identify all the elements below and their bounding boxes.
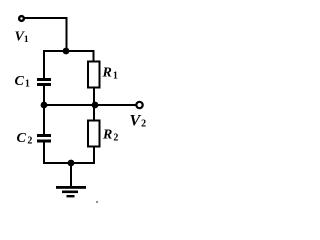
speck artifact xyxy=(96,201,98,203)
node junction upper xyxy=(63,48,70,55)
node junction left-mid xyxy=(41,102,48,109)
wire middle horizontal xyxy=(44,104,136,106)
resistor R1 xyxy=(88,62,118,88)
svg-text:C1: C1 xyxy=(15,74,30,90)
wire top vertical xyxy=(66,17,68,52)
wire top horizontal xyxy=(24,17,68,19)
wire left mid vertical xyxy=(43,86,45,106)
node junction bottom xyxy=(68,160,75,167)
svg-text:R2: R2 xyxy=(102,128,118,144)
capacitor C2 xyxy=(17,131,52,147)
ground xyxy=(56,163,86,197)
svg-text:V2: V2 xyxy=(130,113,147,130)
wire bottom horizontal xyxy=(43,162,95,164)
svg-text:C2: C2 xyxy=(17,131,33,147)
svg-text:R1: R1 xyxy=(102,66,118,82)
svg-text:V1: V1 xyxy=(15,30,29,46)
wire right mid vertical xyxy=(93,87,95,121)
node junction right-mid xyxy=(92,102,99,109)
wire left upper vertical xyxy=(43,50,45,78)
wire right bottom vertical xyxy=(93,146,95,164)
wire left lower vertical xyxy=(43,105,45,134)
terminal V2 xyxy=(130,102,147,130)
wire upper horizontal xyxy=(43,50,94,52)
wire left bottom vertical xyxy=(43,142,45,164)
terminal V1 xyxy=(15,16,29,45)
capacitor C1 xyxy=(15,74,52,90)
wire right top vertical xyxy=(93,50,95,62)
resistor R2 xyxy=(88,121,118,147)
